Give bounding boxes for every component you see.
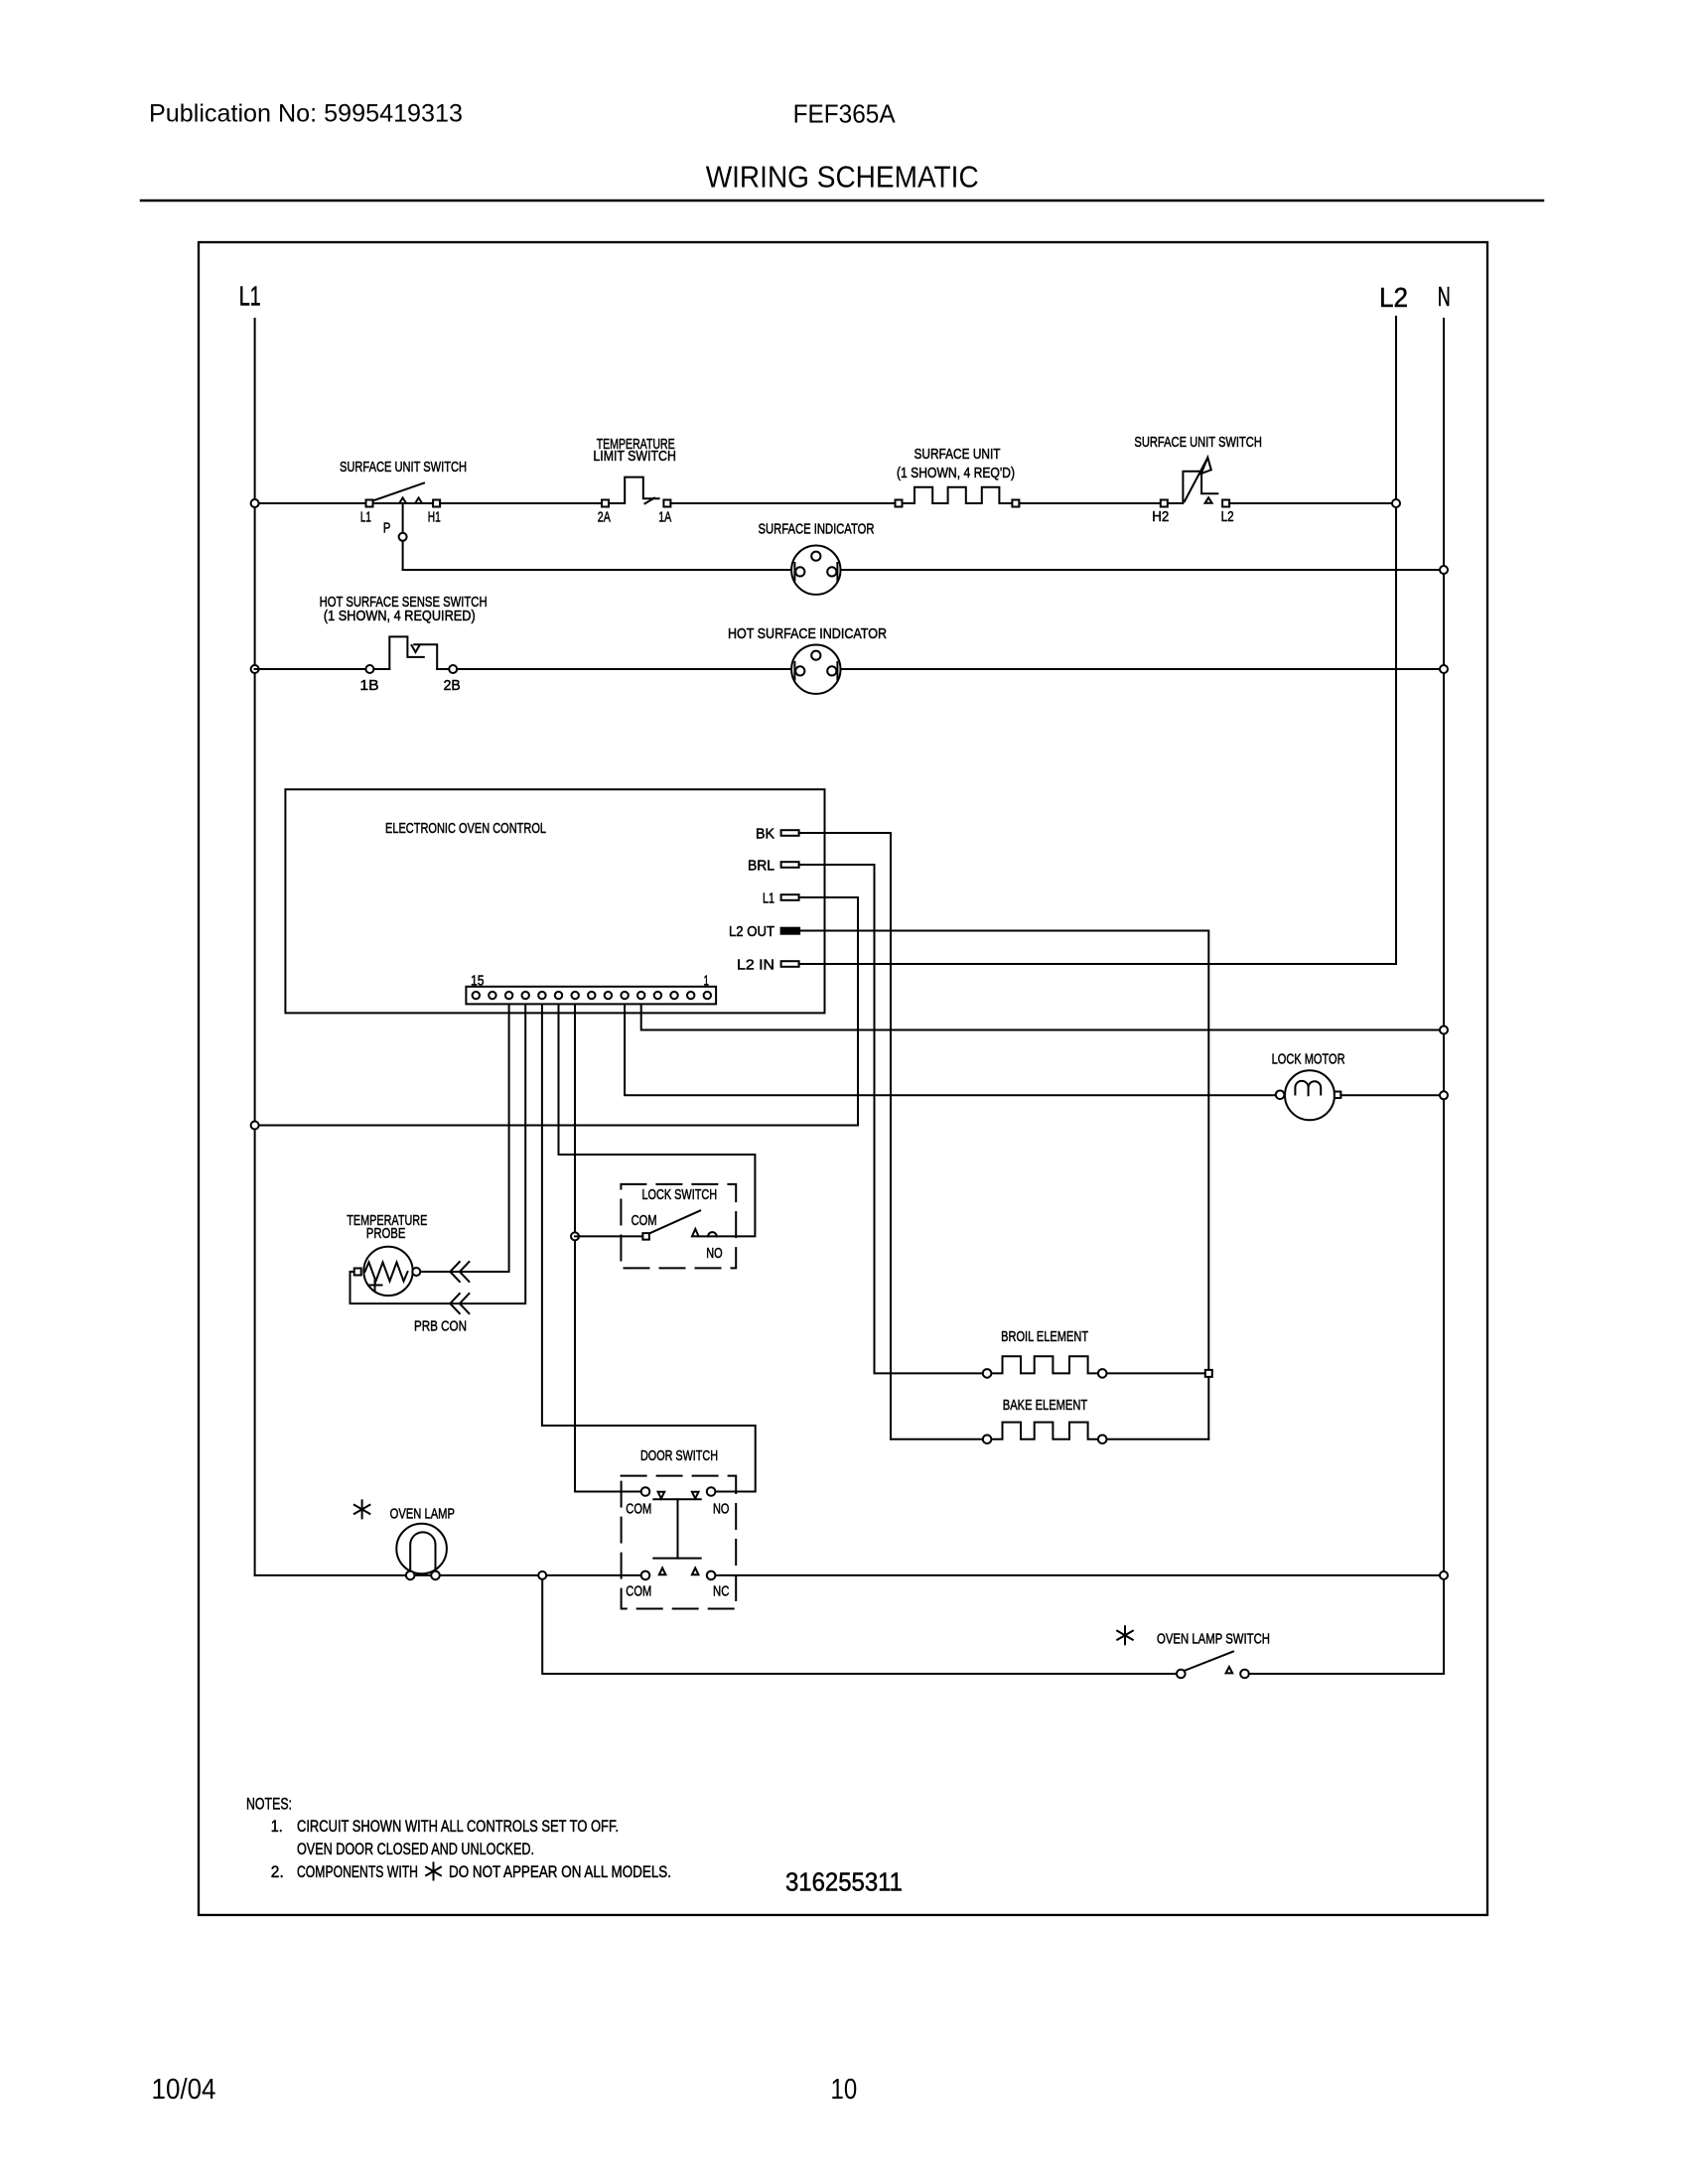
oven lamp switch xyxy=(1117,1626,1270,1678)
wire 2B to hot surface indicator xyxy=(457,668,791,670)
oven lamp terminals xyxy=(406,1571,415,1580)
svg-text:NO: NO xyxy=(706,1245,722,1262)
surface unit element xyxy=(896,446,1020,507)
wire hot surface indicator to N bus xyxy=(841,668,1445,670)
svg-text:DOOR SWITCH: DOOR SWITCH xyxy=(640,1447,718,1464)
wire pin BRL to broil element xyxy=(799,865,983,1373)
svg-text:H2: H2 xyxy=(1152,508,1169,525)
svg-text:NO: NO xyxy=(713,1501,729,1518)
svg-text:L2: L2 xyxy=(1221,508,1234,525)
svg-text:1B: 1B xyxy=(359,677,378,694)
wire strip pin11 to door switch NO xyxy=(542,1005,756,1491)
svg-text:OVEN LAMP SWITCH: OVEN LAMP SWITCH xyxy=(1157,1630,1270,1647)
surface indicator lamp xyxy=(759,521,875,595)
pin L2 IN xyxy=(737,957,799,974)
lock motor xyxy=(1272,1051,1345,1121)
svg-text:OVEN DOOR CLOSED AND UNLOCKED.: OVEN DOOR CLOSED AND UNLOCKED. xyxy=(297,1840,534,1858)
svg-text:10/04: 10/04 xyxy=(152,2074,216,2106)
svg-text:15: 15 xyxy=(471,973,485,990)
node oven lamp row branch xyxy=(538,1571,546,1579)
temperature limit switch xyxy=(593,436,676,526)
surface unit switch (left) xyxy=(340,459,467,537)
svg-text:L1: L1 xyxy=(239,281,261,312)
svg-text:BRL: BRL xyxy=(748,858,774,875)
svg-text:SURFACE UNIT SWITCH: SURFACE UNIT SWITCH xyxy=(340,459,467,476)
pin BK xyxy=(756,826,799,843)
svg-text:1A: 1A xyxy=(658,509,671,526)
wire H1 to 2A xyxy=(440,502,602,504)
surface unit switch (right) xyxy=(1134,434,1262,525)
svg-text:FEF365A: FEF365A xyxy=(793,100,896,128)
broil element xyxy=(983,1328,1107,1378)
wire surface indicator to N bus xyxy=(841,569,1445,571)
svg-text:WIRING SCHEMATIC: WIRING SCHEMATIC xyxy=(706,159,979,194)
svg-text:H1: H1 xyxy=(428,509,441,526)
pin BRL xyxy=(748,858,799,875)
svg-text:COMPONENTS WITH: COMPONENTS WITH xyxy=(297,1862,418,1881)
svg-text:CIRCUIT SHOWN WITH ALL CONTROL: CIRCUIT SHOWN WITH ALL CONTROLS SET TO O… xyxy=(297,1817,619,1836)
wire pin L1 to L1 bus xyxy=(255,897,858,1126)
oven lamp xyxy=(354,1500,455,1575)
svg-text:Publication No: 5995419313: Publication No: 5995419313 xyxy=(149,99,463,127)
svg-text:BAKE ELEMENT: BAKE ELEMENT xyxy=(1003,1397,1087,1414)
electronic oven control box xyxy=(285,789,824,1013)
svg-text:PROBE: PROBE xyxy=(366,1225,406,1242)
svg-text:COM: COM xyxy=(626,1501,651,1518)
node N bus / lock motor xyxy=(1440,1091,1448,1099)
wire bake element to L2 OUT wire xyxy=(1107,1438,1209,1440)
svg-text:L2 OUT: L2 OUT xyxy=(729,923,774,940)
wire L1 bus along oven lamp row to door switch xyxy=(255,1574,641,1576)
svg-text:BK: BK xyxy=(756,826,774,843)
svg-text:SURFACE INDICATOR: SURFACE INDICATOR xyxy=(759,521,875,538)
wire 1A to surface unit xyxy=(670,502,895,504)
wire surface unit to H2 xyxy=(1019,502,1160,504)
wire branch down to oven lamp switch xyxy=(542,1579,1177,1674)
svg-text:2B: 2B xyxy=(444,677,461,694)
lock switch xyxy=(621,1184,736,1269)
wire broil element to L2 OUT wire xyxy=(1107,1372,1209,1374)
svg-text:1: 1 xyxy=(704,973,710,990)
wire L1 bus vertical xyxy=(254,319,256,1575)
wire oven lamp switch to N bus xyxy=(1249,1673,1444,1675)
pin L2 OUT xyxy=(729,923,799,940)
svg-text:OVEN LAMP: OVEN LAMP xyxy=(390,1505,455,1522)
svg-text:COM: COM xyxy=(626,1583,651,1600)
svg-text:10: 10 xyxy=(831,2074,858,2106)
wire strip pin9 to door switch COM xyxy=(575,1005,641,1491)
wire strip pin5 to N bus xyxy=(641,1005,1444,1029)
wire L2 terminal to L2 bus xyxy=(1229,502,1396,504)
svg-text:LOCK MOTOR: LOCK MOTOR xyxy=(1272,1051,1345,1068)
node N bus / row 2 xyxy=(1440,665,1448,673)
node N bus / oven lamp row xyxy=(1440,1571,1448,1579)
svg-text:PRB CON: PRB CON xyxy=(414,1318,467,1335)
probe connector chevrons top xyxy=(450,1262,460,1282)
wire door switch NC to N bus xyxy=(715,1574,1444,1576)
svg-text:BROIL ELEMENT: BROIL ELEMENT xyxy=(1001,1328,1088,1345)
wire strip pin10 to lock switch NO xyxy=(559,1005,756,1236)
svg-text:2.: 2. xyxy=(271,1862,284,1881)
svg-text:L1: L1 xyxy=(360,509,371,526)
wire strip pin6 to lock motor xyxy=(625,1005,1276,1095)
terminal P xyxy=(399,533,407,541)
svg-text:316255311: 316255311 xyxy=(785,1867,903,1897)
hot surface indicator lamp xyxy=(728,625,887,694)
wire L2 bus vertical xyxy=(1395,317,1397,964)
node N bus / surface indicator row xyxy=(1440,566,1448,574)
svg-text:HOT SURFACE INDICATOR: HOT SURFACE INDICATOR xyxy=(728,625,887,642)
svg-text:DO NOT APPEAR ON ALL MODELS.: DO NOT APPEAR ON ALL MODELS. xyxy=(449,1862,671,1881)
wire lock motor to N bus xyxy=(1340,1094,1444,1096)
svg-text:N: N xyxy=(1438,281,1451,312)
wire pin BK to bake element xyxy=(799,833,983,1439)
svg-text:L2: L2 xyxy=(1379,282,1408,313)
wire pin L2 OUT to elements xyxy=(799,931,1208,1439)
wire L1 bus to 1B xyxy=(255,668,366,670)
svg-text:NOTES:: NOTES: xyxy=(246,1795,292,1814)
wire strip pin13 to probe xyxy=(421,1005,509,1272)
wire P to surface indicator xyxy=(403,569,791,571)
svg-text:NC: NC xyxy=(713,1583,730,1600)
svg-text:2A: 2A xyxy=(598,509,611,526)
svg-text:LIMIT SWITCH: LIMIT SWITCH xyxy=(593,448,676,465)
svg-text:LOCK SWITCH: LOCK SWITCH xyxy=(642,1186,718,1203)
temperature probe xyxy=(347,1212,467,1335)
junction square broil/L2 OUT xyxy=(1205,1370,1212,1377)
wire branch to lock switch COM xyxy=(575,1235,642,1237)
door switch lower contacts xyxy=(641,1571,650,1580)
svg-text:COM: COM xyxy=(632,1212,657,1229)
terminal strip pins 15..1 xyxy=(466,973,716,1005)
pin L1 xyxy=(763,890,799,907)
hot surface sense switch xyxy=(320,594,488,694)
svg-text:ELECTRONIC OVEN CONTROL: ELECTRONIC OVEN CONTROL xyxy=(385,820,546,837)
node N bus / pin5 wire xyxy=(1440,1026,1448,1034)
node L1 bus / row 1 xyxy=(251,499,259,507)
wire L1 bus to surface unit switch xyxy=(255,502,366,504)
wire N bus vertical xyxy=(1443,319,1445,1674)
probe connector chevrons bottom xyxy=(450,1294,460,1313)
wire pin L2 IN to L2 bus xyxy=(799,963,1396,965)
svg-text:(1 SHOWN, 4 REQUIRED): (1 SHOWN, 4 REQUIRED) xyxy=(324,608,476,624)
wire strip pin12 to probe return xyxy=(351,1005,526,1303)
node L2 bus / row 1 xyxy=(1392,499,1400,507)
svg-text:P: P xyxy=(383,520,391,537)
wire P branch vertical xyxy=(402,503,404,570)
node lock switch COM branch xyxy=(571,1232,579,1240)
svg-text:L2 IN: L2 IN xyxy=(737,957,774,974)
bake element xyxy=(983,1397,1107,1443)
svg-text:(1 SHOWN, 4 REQ'D): (1 SHOWN, 4 REQ'D) xyxy=(897,465,1015,481)
svg-text:L1: L1 xyxy=(763,890,774,907)
svg-text:SURFACE UNIT SWITCH: SURFACE UNIT SWITCH xyxy=(1134,434,1262,451)
svg-text:SURFACE UNIT: SURFACE UNIT xyxy=(914,446,1001,463)
title underline rule xyxy=(141,200,1543,203)
door switch xyxy=(622,1447,737,1609)
notes block xyxy=(246,1795,671,1882)
svg-text:1.: 1. xyxy=(271,1817,283,1836)
node L1 bus / row 2 xyxy=(251,665,259,673)
node L1 bus / pin L1 wire xyxy=(251,1122,259,1130)
